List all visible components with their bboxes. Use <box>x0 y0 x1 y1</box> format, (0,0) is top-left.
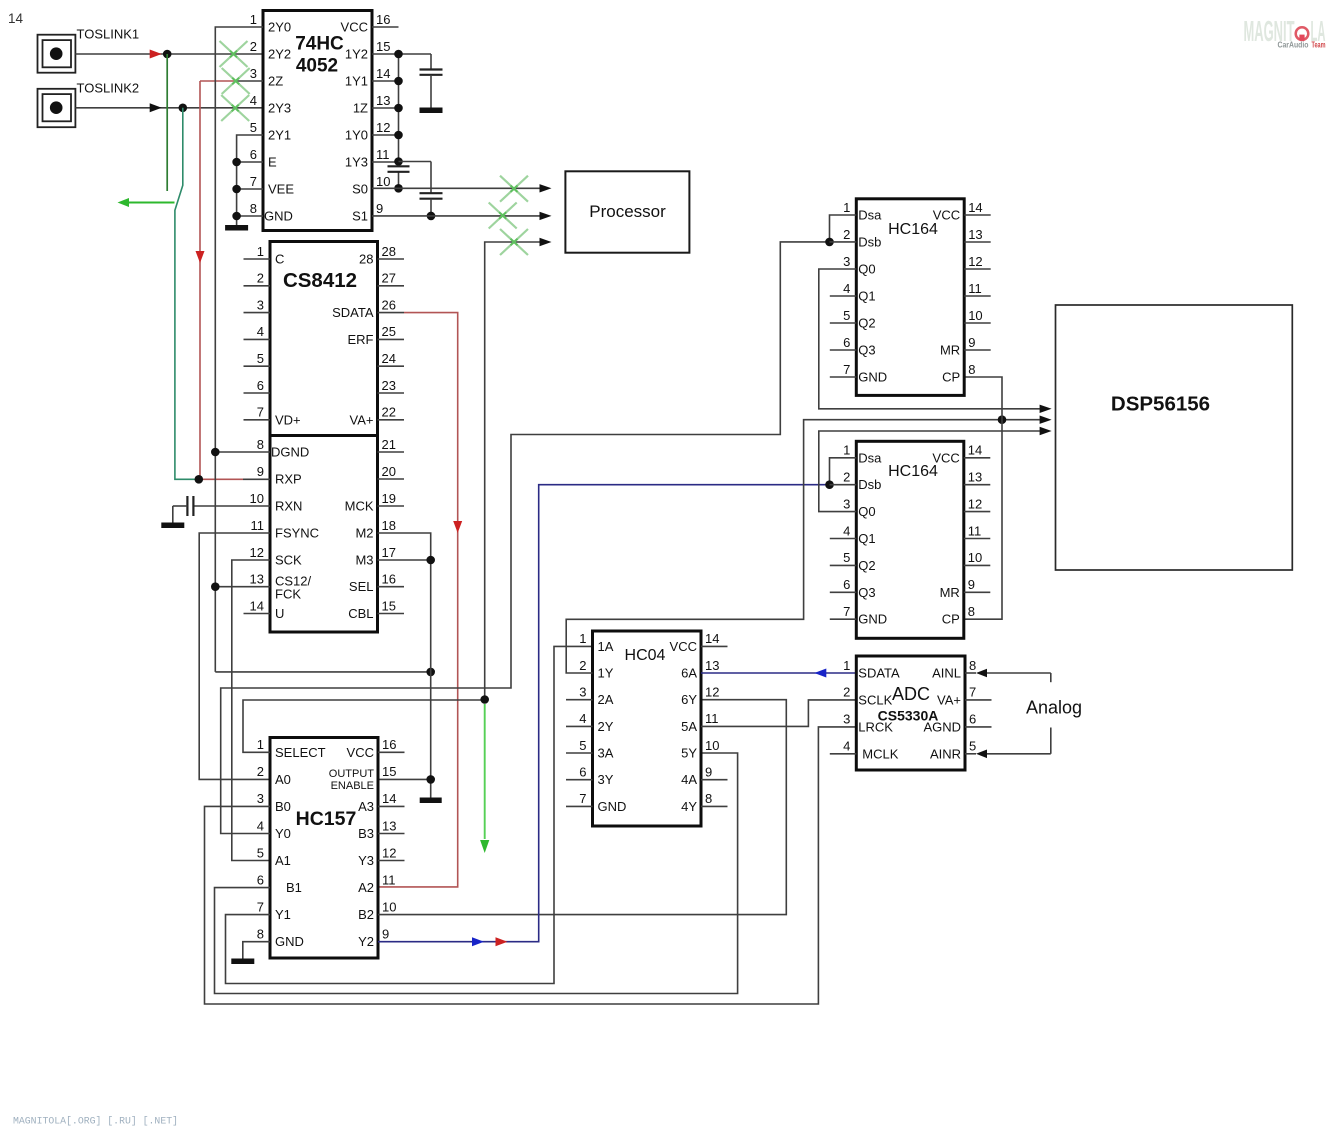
U5 HC164a pin 11 (nc) <box>964 281 991 296</box>
svg-text:3: 3 <box>843 254 850 269</box>
svg-text:VCC: VCC <box>932 450 959 465</box>
svg-text:3A: 3A <box>598 746 614 761</box>
U2 CS8412 pin 24 (nc) <box>378 351 405 366</box>
svg-text:GND: GND <box>858 612 887 627</box>
svg-text:1: 1 <box>250 12 257 27</box>
junction Dsb2 <box>825 480 834 489</box>
svg-text:9: 9 <box>968 335 975 350</box>
svg-text:12: 12 <box>968 496 982 511</box>
svg-text:8: 8 <box>968 362 975 377</box>
U6 HC164b pin 12 (nc) <box>964 496 991 511</box>
arrowhead S1 <box>540 212 552 220</box>
svg-text:28: 28 <box>359 252 373 267</box>
wire CS12/FCK pin13 to rail <box>215 586 270 588</box>
U1 74HC4052 pin 10 (S0) <box>352 174 390 197</box>
svg-text:13: 13 <box>968 470 982 485</box>
U7 ADC CS5330A pin 2 (SCLK) <box>843 685 893 708</box>
svg-text:6: 6 <box>250 147 257 162</box>
svg-text:5: 5 <box>579 738 586 753</box>
U6 HC164b pin 5 (Q2) <box>830 550 876 573</box>
U5 HC164a pin 1 (Dsa) <box>843 200 882 223</box>
svg-text:9: 9 <box>968 577 975 592</box>
wire 6A to ADC SDATA navy <box>701 672 856 674</box>
U7 ADC CS5330A pin 4 (MCLK) <box>830 739 899 762</box>
svg-text:1Y0: 1Y0 <box>345 128 368 143</box>
junction DGND <box>211 448 220 457</box>
U4 HC04 pin 1 (1A) <box>579 631 613 654</box>
svg-text:4: 4 <box>257 818 264 833</box>
svg-text:Y3: Y3 <box>358 853 374 868</box>
U1 74HC4052 pin 9 (S1) <box>352 201 383 224</box>
U2 CS8412 pin 9 (RXP) <box>257 464 302 487</box>
svg-text:C: C <box>275 252 284 267</box>
U4 HC04 pin 13 (6A) <box>681 658 719 681</box>
svg-text:14: 14 <box>968 443 982 458</box>
svg-text:SEL: SEL <box>349 579 374 594</box>
svg-text:13: 13 <box>382 818 396 833</box>
svg-text:CarAudio: CarAudio <box>1278 41 1309 50</box>
U2 CS8412 pin 20 (nc) <box>378 464 405 479</box>
svg-text:20: 20 <box>382 464 396 479</box>
U4 HC04 pin 3 (2A) <box>566 685 614 708</box>
U4 HC04 pin 8 (4Y) <box>681 791 727 814</box>
U1 74HC4052 pin 5 (2Y1) <box>250 120 291 143</box>
connector TOSLINK2 <box>38 81 140 128</box>
U1 74HC4052 pin 1 (2Y0) <box>250 12 291 35</box>
green X on S1 line <box>489 203 517 229</box>
U2 CS8412 pin 28 (28) <box>359 244 404 267</box>
svg-text:4: 4 <box>843 739 850 754</box>
U4 HC04 pin 6 (3Y) <box>566 765 614 788</box>
svg-text:11: 11 <box>376 147 390 162</box>
svg-text:A1: A1 <box>275 853 291 868</box>
wire CP rail (HC164a CP to HC164b CP) <box>964 377 1002 619</box>
svg-text:RXP: RXP <box>275 472 302 487</box>
svg-text:1Y1: 1Y1 <box>345 74 368 89</box>
svg-text:VCC: VCC <box>933 208 960 223</box>
svg-text:1: 1 <box>579 631 586 646</box>
svg-text:ADC: ADC <box>892 684 930 704</box>
svg-text:9: 9 <box>257 464 264 479</box>
U5 HC164a pin 9 (MR) <box>940 335 991 358</box>
wire TOSLINK1 to U1 pin 2 <box>75 53 263 55</box>
capacitor C3 (1Y3 node to S1) <box>399 162 443 216</box>
wire Dsb2 stub <box>830 484 857 486</box>
wire teal drop from TOSLINK2 tap to RXP <box>175 108 199 480</box>
U3 HC157 pin 13 (B3) <box>358 818 404 841</box>
U3 HC157 pin 12 (Y3) <box>358 845 404 868</box>
U3 HC157 pin 9 (Y2) <box>358 927 389 950</box>
wire TOSLINK2 to U1 pin 4 <box>75 107 263 109</box>
svg-text:7: 7 <box>579 791 586 806</box>
arrowhead DSP line2 <box>1040 416 1052 424</box>
U1 74HC4052 pin 14 (1Y1) <box>345 66 399 89</box>
svg-text:12: 12 <box>376 120 390 135</box>
svg-text:5: 5 <box>843 550 850 565</box>
U6 HC164b pin 3 (Q0) <box>843 496 876 519</box>
wire SELECT up over to processor riser <box>243 700 485 752</box>
annotation arrow red down on 2Z-RXP wire <box>196 251 205 263</box>
U7 ADC CS5330A pin 3 (LRCK) <box>843 712 893 735</box>
wire U1 1Y2 pin15 to rail and C1 <box>372 53 431 55</box>
svg-text:8: 8 <box>969 658 976 673</box>
U3 HC157 pin 15 (('OUTPUT', 'ENABLE')) <box>329 764 397 792</box>
U4 HC04 pin 14 (VCC) <box>670 631 728 654</box>
ground below OE <box>420 798 442 804</box>
wire HC157 GND to ground <box>243 942 270 959</box>
capacitor C1 (1Y2 to gnd) <box>420 54 443 108</box>
svg-text:SCK: SCK <box>275 553 302 568</box>
svg-text:3: 3 <box>257 297 264 312</box>
svg-text:22: 22 <box>382 405 396 420</box>
svg-text:9: 9 <box>376 201 383 216</box>
svg-text:26: 26 <box>382 297 396 312</box>
svg-text:11: 11 <box>968 523 982 538</box>
svg-text:GND: GND <box>598 799 627 814</box>
U2 CS8412 pin 10 (RXN) <box>250 491 303 514</box>
svg-text:CP: CP <box>942 370 960 385</box>
svg-text:3: 3 <box>250 66 257 81</box>
svg-text:1: 1 <box>257 244 264 259</box>
svg-text:1: 1 <box>843 658 850 673</box>
wire B2 to HC04 6Y <box>378 700 786 915</box>
U2 CS8412 pin 26 (SDATA) <box>332 297 396 320</box>
svg-text:21: 21 <box>382 437 396 452</box>
svg-text:2Y: 2Y <box>598 719 614 734</box>
U5 HC164a pin 13 (nc) <box>964 227 991 242</box>
svg-text:12: 12 <box>968 254 982 269</box>
svg-text:1Y3: 1Y3 <box>345 155 368 170</box>
svg-text:VCC: VCC <box>347 745 374 760</box>
svg-text:VA+: VA+ <box>350 412 374 427</box>
svg-text:7: 7 <box>843 604 850 619</box>
U5 HC164a pin 12 (nc) <box>964 254 991 269</box>
svg-text:2: 2 <box>250 39 257 54</box>
U1 74HC4052 pin 12 (1Y0) <box>345 120 399 143</box>
svg-text:S0: S0 <box>352 182 368 197</box>
U4 HC04 pin 7 (GND) <box>566 791 626 814</box>
U1 74HC4052 pin 8 (GND) <box>250 201 293 224</box>
svg-text:Y1: Y1 <box>275 907 291 922</box>
svg-text:SELECT: SELECT <box>275 745 326 760</box>
U5 HC164a pin 4 (Q1) <box>830 281 876 304</box>
svg-text:Y2: Y2 <box>358 934 374 949</box>
svg-text:6: 6 <box>579 765 586 780</box>
svg-text:12: 12 <box>250 545 264 560</box>
U3 HC157 pin 3 (B0) <box>257 791 291 814</box>
svg-text:2Z: 2Z <box>268 74 283 89</box>
ground below C4 <box>161 523 184 529</box>
svg-text:15: 15 <box>382 764 396 779</box>
wire AINR analog input <box>965 728 1051 759</box>
annotation arrow red right on Y2 <box>496 937 508 946</box>
svg-text:Q1: Q1 <box>858 531 875 546</box>
svg-text:Dsa: Dsa <box>858 450 882 465</box>
wire U1 pin1 2Y0 to DGND rail <box>215 27 263 672</box>
svg-text:6A: 6A <box>681 666 697 681</box>
junction node RXP <box>195 475 204 484</box>
U3 HC157 pin 4 (Y0) <box>257 818 291 841</box>
svg-text:VD+: VD+ <box>275 412 301 427</box>
U2 CS8412 pin 16 (SEL) <box>349 572 404 595</box>
U5 HC164a pin 8 (CP) <box>942 362 975 385</box>
svg-text:4: 4 <box>843 523 850 538</box>
svg-text:E: E <box>268 155 277 170</box>
svg-text:LRCK: LRCK <box>858 719 893 734</box>
ground below HC157 GND <box>231 959 254 965</box>
svg-text:6: 6 <box>843 335 850 350</box>
svg-text:15: 15 <box>382 598 396 613</box>
svg-text:GND: GND <box>264 209 293 224</box>
wire green drop from TOSLINK1 tap <box>166 54 168 191</box>
svg-text:7: 7 <box>969 685 976 700</box>
U3 HC157 pin 1 (SELECT) <box>257 737 326 760</box>
svg-text:12: 12 <box>382 845 396 860</box>
svg-text:16: 16 <box>382 737 396 752</box>
U6 HC164b pin 2 (Dsb) <box>843 470 881 493</box>
svg-text:6: 6 <box>969 712 976 727</box>
svg-text:15: 15 <box>376 39 390 54</box>
svg-text:11: 11 <box>968 281 982 296</box>
svg-text:A3: A3 <box>358 799 374 814</box>
U5 HC164a pin 10 (nc) <box>964 308 991 323</box>
svg-text:VCC: VCC <box>341 20 368 35</box>
wire Y2 navy to HC164b Dsb <box>378 485 830 942</box>
annotation arrow blue right on Y2 <box>472 937 484 946</box>
U7 ADC CS5330A pin 1 (SDATA) <box>843 658 900 681</box>
svg-text:RXN: RXN <box>275 499 302 514</box>
svg-text:19: 19 <box>382 491 396 506</box>
U7 ADC CS5330A pin 7 (VA+) <box>937 685 991 708</box>
svg-text:Dsb: Dsb <box>858 235 881 250</box>
U6 HC164b pin 10 (nc) <box>964 550 991 565</box>
svg-text:25: 25 <box>382 324 396 339</box>
U2 CS8412 pin 4 (nc) <box>244 324 271 339</box>
U4 HC04 pin 11 (5A) <box>681 711 718 734</box>
svg-text:7: 7 <box>843 362 850 377</box>
svg-text:13: 13 <box>376 93 390 108</box>
ground below U1 <box>225 225 248 231</box>
wire Y1 to HC04 1A <box>226 646 593 983</box>
svg-text:5: 5 <box>250 120 257 135</box>
U3 HC157 pin 2 (A0) <box>257 764 291 787</box>
wire DGND pin8 to rail <box>215 451 270 453</box>
svg-text:1: 1 <box>843 443 850 458</box>
arrowhead S0 <box>540 184 552 192</box>
svg-text:4: 4 <box>257 324 264 339</box>
svg-text:3: 3 <box>579 685 586 700</box>
U5 HC164a pin 7 (GND) <box>830 362 887 385</box>
wire HC164b Dsa loop to Dsb <box>830 458 857 485</box>
U1 74HC4052 pin 11 (1Y3) <box>345 147 399 170</box>
junction M3 <box>426 556 435 565</box>
wire Y0 to HC164a Dsa/Dsb <box>221 242 830 834</box>
U5 HC164a pin 5 (Q2) <box>830 308 876 331</box>
svg-text:11: 11 <box>705 711 719 726</box>
svg-text:9: 9 <box>705 765 712 780</box>
svg-text:Dsa: Dsa <box>858 208 882 223</box>
IC U5 HC164a body <box>856 199 964 396</box>
junction OE <box>426 775 435 784</box>
svg-text:Team: Team <box>1312 41 1326 50</box>
svg-text:Q0: Q0 <box>858 504 875 519</box>
wire Dsb1 stub <box>830 241 857 243</box>
annotation arrow red down on SDATA <box>453 521 462 533</box>
U2 CS8412 pin 22 (VA+) <box>350 405 404 428</box>
svg-text:VEE: VEE <box>268 182 294 197</box>
annotation arrow blue left on SDATA line <box>814 669 826 678</box>
svg-text:M3: M3 <box>355 553 373 568</box>
IC U1 74HC4052 body <box>263 11 372 231</box>
U4 HC04 pin 9 (4A) <box>681 765 727 788</box>
svg-text:1Y: 1Y <box>598 666 614 681</box>
U2 CS8412 pin 3 (nc) <box>244 297 271 312</box>
svg-text:2Y2: 2Y2 <box>268 47 291 62</box>
U2 CS8412 pin 23 (nc) <box>378 378 405 393</box>
U6 HC164b pin 1 (Dsa) <box>843 443 882 466</box>
block DSP56156 <box>1056 305 1293 570</box>
U2 CS8412 pin 19 (MCK) <box>345 491 404 514</box>
wire SCK to HC157 A1 <box>232 560 270 861</box>
svg-text:HC04: HC04 <box>625 647 666 664</box>
svg-text:7: 7 <box>250 174 257 189</box>
ground below C1 <box>420 108 443 114</box>
svg-text:6: 6 <box>257 378 264 393</box>
svg-text:ENABLE: ENABLE <box>331 780 374 792</box>
svg-text:AINR: AINR <box>930 746 961 761</box>
annotation arrow green left <box>118 198 175 207</box>
U3 HC157 pin 14 (A3) <box>358 791 404 814</box>
svg-text:2: 2 <box>843 227 850 242</box>
arrowhead third processor line <box>540 238 552 246</box>
svg-text:8: 8 <box>257 437 264 452</box>
U6 HC164b pin 7 (GND) <box>830 604 887 627</box>
svg-text:2: 2 <box>843 685 850 700</box>
wire B1 to HC04 5Y <box>215 753 738 994</box>
svg-text:6: 6 <box>257 872 264 887</box>
svg-text:3Y: 3Y <box>598 772 614 787</box>
svg-text:4Y: 4Y <box>681 799 697 814</box>
junction pins 15..10 <box>394 50 403 59</box>
svg-text:Y0: Y0 <box>275 826 291 841</box>
wire FSYNC to HC157 A0 <box>199 533 270 779</box>
svg-text:MR: MR <box>940 343 960 358</box>
green X on U1 pin 4 <box>221 95 249 121</box>
svg-text:CBL: CBL <box>348 606 373 621</box>
junction OE node <box>426 668 435 677</box>
arrow on TOSLINK2 wire <box>150 103 162 112</box>
arrowhead DSP line1 <box>1040 405 1052 413</box>
svg-text:74HC: 74HC <box>295 34 344 55</box>
svg-text:A0: A0 <box>275 772 291 787</box>
svg-text:GND: GND <box>858 370 887 385</box>
logo MAGNITOLA <box>1244 16 1326 50</box>
U2 CS8412 pin 1 (C) <box>244 244 285 267</box>
svg-text:Q3: Q3 <box>858 585 875 600</box>
wire SDATA red to HC157 A2 <box>378 313 458 887</box>
wire RXP stub <box>243 478 270 480</box>
junction node TOSLINK1 tap <box>163 50 172 59</box>
U3 HC157 pin 8 (GND) <box>257 927 304 950</box>
U1 74HC4052 pin 3 (2Z) <box>237 66 284 89</box>
U4 HC04 pin 12 (6Y) <box>681 685 719 708</box>
svg-text:4: 4 <box>843 281 850 296</box>
capacitor C4 on RXN <box>173 496 270 523</box>
U3 HC157 pin 5 (A1) <box>257 845 291 868</box>
U2 internal divider <box>270 434 378 437</box>
wire AINL analog input <box>965 669 1051 683</box>
svg-text:14: 14 <box>968 200 982 215</box>
svg-text:13: 13 <box>250 572 264 587</box>
svg-text:2: 2 <box>257 271 264 286</box>
junction VEE <box>232 185 241 194</box>
svg-text:11: 11 <box>382 872 396 887</box>
green X on U1 pin 2 <box>220 41 248 67</box>
svg-text:5: 5 <box>969 739 976 754</box>
svg-text:TOSLINK2: TOSLINK2 <box>77 81 140 96</box>
svg-text:2A: 2A <box>598 692 614 707</box>
svg-text:10: 10 <box>376 174 390 189</box>
U5 HC164a pin 6 (Q3) <box>830 335 876 358</box>
svg-text:7: 7 <box>257 405 264 420</box>
svg-text:2Y1: 2Y1 <box>268 128 291 143</box>
svg-text:14: 14 <box>382 791 396 806</box>
svg-text:Q1: Q1 <box>858 289 875 304</box>
svg-text:Dsb: Dsb <box>858 477 881 492</box>
green X on U1 pin 3 <box>222 68 250 94</box>
wire GND pin8 <box>237 215 263 217</box>
U2 CS8412 pin 17 (M3) <box>355 545 396 568</box>
U2 CS8412 pin 11 (FSYNC) <box>251 518 320 541</box>
svg-text:17: 17 <box>382 545 396 560</box>
junction SELECT/processor riser <box>480 695 489 704</box>
wire red net: U1 pin3 2Z down to U2 RXP <box>200 80 236 82</box>
svg-text:4: 4 <box>250 93 257 108</box>
svg-text:13: 13 <box>705 658 719 673</box>
U6 HC164b pin 14 (VCC) <box>932 443 990 466</box>
svg-text:8: 8 <box>968 604 975 619</box>
junction E <box>232 158 241 167</box>
U3 HC157 pin 10 (B2) <box>358 899 396 922</box>
U2 CS8412 pin 6 (nc) <box>244 378 271 393</box>
U1 74HC4052 pin 4 (2Y3) <box>250 93 291 116</box>
green X on S0 line <box>500 176 528 202</box>
svg-text:VA+: VA+ <box>937 692 961 707</box>
svg-text:7: 7 <box>257 899 264 914</box>
IC U4 HC04 body <box>593 631 702 826</box>
U6 HC164b pin 13 (nc) <box>964 470 991 485</box>
svg-text:1: 1 <box>843 200 850 215</box>
svg-text:B2: B2 <box>358 907 374 922</box>
svg-text:6: 6 <box>843 577 850 592</box>
wire OUTPUT ENABLE pin15 <box>378 778 431 780</box>
junction Dsb1 <box>825 238 834 247</box>
U1 74HC4052 pin 16 (VCC) <box>341 12 399 35</box>
U4 HC04 pin 10 (5Y) <box>681 738 719 761</box>
svg-text:2: 2 <box>843 470 850 485</box>
svg-text:16: 16 <box>376 12 390 27</box>
junction GND <box>232 212 241 221</box>
svg-text:8: 8 <box>250 201 257 216</box>
wire SELECT node up to Processor <box>485 242 540 700</box>
svg-text:8: 8 <box>705 791 712 806</box>
U4 HC04 pin 4 (2Y) <box>566 711 614 734</box>
svg-text:SDATA: SDATA <box>332 305 374 320</box>
svg-text:14: 14 <box>705 631 719 646</box>
svg-text:Q2: Q2 <box>858 316 875 331</box>
U3 HC157 pin 16 (VCC) <box>347 737 405 760</box>
svg-text:12: 12 <box>705 685 719 700</box>
